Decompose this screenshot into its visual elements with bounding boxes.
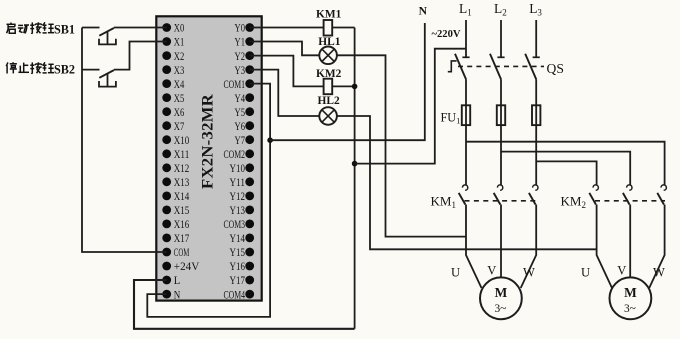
svg-text:X11: X11 [174,149,190,161]
svg-text:Y13: Y13 [230,205,246,217]
PLC input pin X4 [162,79,171,88]
wire KM1 pole 3 to motor [521,205,537,289]
svg-text:COM1: COM1 [224,79,246,91]
svg-text:X16: X16 [174,219,190,231]
svg-text:SB1: SB1 [54,22,75,36]
svg-text:COM2: COM2 [224,149,246,161]
wire Y1 to HL1 [250,42,320,56]
wire fuse 3 through and down [535,105,537,185]
PLC input pin X14 [162,192,171,201]
svg-text:N: N [174,289,181,301]
PLC input pin +24V [162,262,171,271]
PLC input pin L [162,276,171,285]
wire phase1 branch to KM2 pole3 [466,142,665,185]
svg-text:3~: 3~ [624,303,636,315]
PLC output pin COM4 [245,290,254,299]
svg-text:COM: COM [174,247,190,259]
PLC output pin COM3 [245,220,254,229]
indicator lamp HL2 [319,107,337,125]
contactor KM1 linkage dashed [465,200,537,202]
PLC output pin Y4 [245,93,254,102]
contactor KM1 main contact pole 3 [533,185,538,190]
PLC output pin Y3 [245,65,254,74]
svg-text:~220V: ~220V [432,29,461,40]
svg-text:+24V: +24V [174,261,200,273]
PLC output pin Y1 [245,37,254,46]
PLC output pin Y10 [245,163,254,172]
wire fuse 2 through and down [500,105,502,185]
wire Y2 to KM2 coil [250,56,324,87]
wire live feed from L1 tap [355,49,466,164]
switch QS blade pole 3 [525,54,536,79]
svg-text:X4: X4 [174,79,185,91]
PLC input pin X16 [162,220,171,229]
PLC input pin X17 [162,234,171,243]
svg-text:X6: X6 [174,107,185,119]
wire phase3 branch to KM2 pole1 [536,161,596,185]
svg-text:W: W [653,266,665,280]
svg-text:Y7: Y7 [235,135,246,147]
svg-text:Y0: Y0 [235,23,246,35]
svg-text:M: M [495,285,508,300]
svg-text:X14: X14 [174,191,190,203]
PLC input pin X13 [162,177,171,186]
wire L3 drop to QS [535,20,537,57]
PLC output pin Y2 [245,51,254,60]
wire PLC L pin to live rail bottom [134,280,355,329]
svg-text:KM1: KM1 [316,9,342,21]
svg-text:X1: X1 [174,37,185,49]
PLC output pin COM1 [245,79,254,88]
switch QS fixed contact pole 2 [497,56,504,58]
switch QS fixed contact pole 1 [462,56,469,58]
svg-text:V: V [487,264,496,278]
svg-text:X5: X5 [174,93,185,105]
wire HL1 right to motor1 U tap [337,55,466,236]
PLC input pin X10 [162,135,171,144]
label start button SB1 (Chinese) [7,22,55,33]
PLC output pin Y15 [245,248,254,257]
svg-text:SB2: SB2 [54,62,75,76]
junction COM1/neutral branch [267,137,273,143]
PLC output pin Y5 [245,107,254,116]
PLC output pin Y14 [245,234,254,243]
svg-text:Y14: Y14 [230,233,246,245]
wire neutral branch to N supply [270,23,425,140]
wire QS pole 3 to fuse [535,79,537,105]
wire fuse 1 through and down [465,105,467,185]
svg-text:X13: X13 [174,177,190,189]
svg-text:W: W [523,266,535,280]
wire Y0 to KM1 coil [250,27,324,29]
PLC output pin Y0 [245,23,254,32]
wire KM2 pole 2 to motor [629,205,631,278]
wire L2 drop to QS [500,20,502,57]
motor M2 [610,277,652,319]
PLC input pin X7 [162,121,171,130]
contactor coil KM2 [324,79,333,95]
contactor KM2 main contact pole 1 [593,185,598,190]
wire live rail vertical [354,28,356,329]
svg-text:U: U [581,266,590,280]
wire KM2 pole 3 to motor [649,205,664,289]
svg-text:QS: QS [547,61,564,76]
wire KM1 pole 2 to motor [500,205,502,278]
svg-text:KM2: KM2 [316,68,342,80]
svg-text:X0: X0 [174,23,185,35]
PLC output pin Y11 [245,177,254,186]
junction live feed [352,161,358,167]
switch QS handle [448,61,457,72]
svg-text:COM3: COM3 [224,219,246,231]
wire KM2 pole 1 to motor [597,205,612,289]
switch QS fixed contact pole 3 [533,56,540,58]
svg-text:FX2N-32MR: FX2N-32MR [200,93,217,189]
pushbutton SB2 (stop) [99,70,116,87]
svg-text:X3: X3 [174,65,185,77]
svg-text:3~: 3~ [494,303,506,315]
svg-text:X12: X12 [174,163,190,175]
junction KM2/live rail [352,84,358,90]
wire Y3 to HL2 [250,70,320,116]
svg-text:Y2: Y2 [235,51,246,63]
svg-text:Y4: Y4 [235,93,246,105]
svg-text:L: L [174,275,181,287]
svg-text:V: V [617,264,626,278]
switch QS blade pole 1 [455,54,466,79]
wire KM2 coil to live rail [332,85,354,87]
contactor KM2 main contact pole 3 [661,185,666,190]
PLC input pin X6 [162,107,171,116]
indicator lamp HL1 [319,47,337,65]
PLC input pin X2 [162,51,171,60]
svg-text:HL2: HL2 [318,95,340,107]
PLC input pin X12 [162,163,171,172]
svg-text:Y11: Y11 [230,177,246,189]
PLC output pin Y13 [245,206,254,215]
svg-text:Y6: Y6 [235,121,246,133]
svg-text:Y17: Y17 [230,275,246,287]
svg-text:Y10: Y10 [230,163,246,175]
wire COM1 to N pin around bottom [147,84,270,317]
svg-text:X10: X10 [174,135,190,147]
PLC input pin X0 [162,23,171,32]
contactor KM2 linkage dashed [595,200,665,202]
svg-text:COM4: COM4 [224,289,246,301]
wire phase2 branch to KM2 pole2 [501,152,630,185]
wire QS pole 1 to fuse [465,79,467,105]
switch QS blade pole 2 [490,54,501,79]
svg-text:HL1: HL1 [318,36,340,48]
svg-text:Y1: Y1 [235,37,246,49]
wire SB1 left terminal [82,27,100,29]
PLC output pin Y7 [245,135,254,144]
wire QS pole 2 to fuse [500,79,502,105]
wire SB2 to X1 [114,42,167,70]
PLC input pin X11 [162,149,171,158]
wire SB1 to X0 [114,27,167,29]
label stop button SB2 (Chinese) [6,62,54,73]
PLC input pin X1 [162,37,171,46]
svg-text:Y16: Y16 [230,261,246,273]
wire left rail from SB1 to COM [82,28,167,253]
contactor KM1 main contact pole 1 [462,185,467,190]
contactor KM2 main contact pole 2 [627,185,632,190]
svg-text:N: N [419,4,428,17]
PLC input pin X15 [162,206,171,215]
svg-text:Y3: Y3 [235,65,246,77]
contactor KM1 main contact pole 2 [497,185,502,190]
PLC input pin COM [162,248,171,257]
PLC output pin Y12 [245,192,254,201]
fuse FU1 element 2 [497,105,505,125]
svg-text:Y15: Y15 [230,247,246,259]
PLC input pin X3 [162,65,171,74]
wire KM1 coil to live rail [332,27,354,29]
svg-text:Y5: Y5 [235,107,246,119]
fuse FU1 element 1 [462,105,470,125]
PLC output pin Y17 [245,276,254,285]
fuse FU1 element 3 [532,105,540,125]
PLC input pin X5 [162,93,171,102]
wire SB2 left terminal [82,69,100,71]
wire KM1 pole 1 to motor [466,205,482,289]
pushbutton SB1 (start) [99,28,116,44]
PLC output pin Y6 [245,121,254,130]
svg-text:X17: X17 [174,233,190,245]
svg-text:M: M [624,285,637,300]
svg-text:X7: X7 [174,121,185,133]
switch QS linkage dashed [458,65,544,67]
svg-text:Y12: Y12 [230,191,246,203]
svg-text:X15: X15 [174,205,190,217]
contactor coil KM1 [324,20,333,36]
motor M1 [480,277,522,319]
PLC input pin N [162,290,171,299]
wire L1 drop to QS [465,20,467,57]
wire HL2 right to motor2 U tap [337,116,597,249]
PLC U1 FX2N-32MR body [156,16,261,300]
PLC output pin COM2 [245,149,254,158]
svg-text:X2: X2 [174,51,185,63]
PLC output pin Y16 [245,262,254,271]
svg-text:U: U [451,266,460,280]
